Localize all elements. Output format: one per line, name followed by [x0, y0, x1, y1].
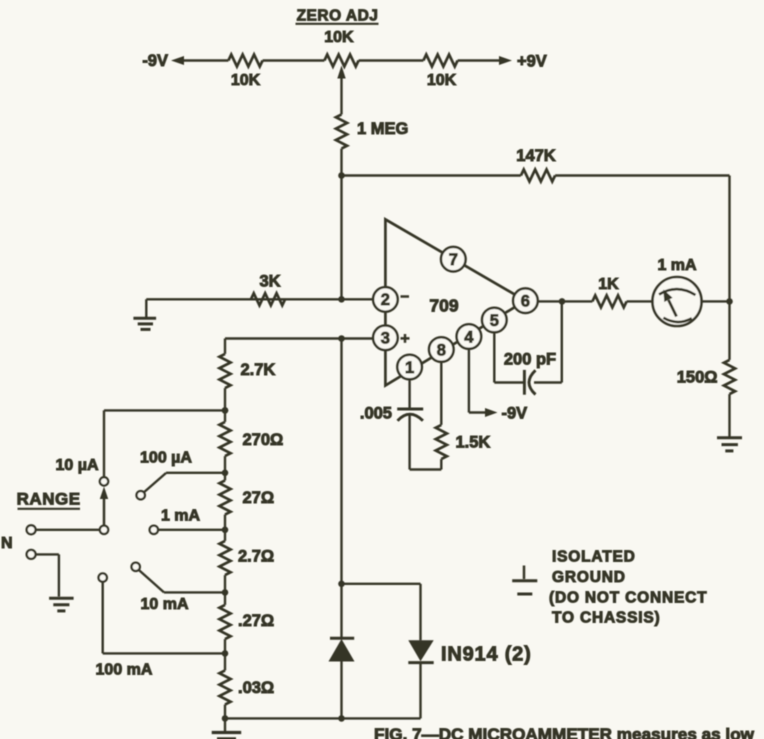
ground [717, 438, 742, 451]
node junction [222, 715, 229, 722]
svg-text:.03Ω: .03Ω [238, 679, 274, 697]
svg-text:10K: 10K [427, 72, 457, 89]
wire to diodes [340, 339, 342, 584]
wire [627, 300, 653, 302]
svg-text:100 µA: 100 µA [140, 450, 192, 467]
svg-text:1 MEG: 1 MEG [357, 120, 408, 138]
pin 1 [397, 355, 422, 380]
resistor 1 MEG [336, 114, 408, 148]
node junction [222, 470, 229, 477]
op-amp U1 709 triangle [385, 219, 525, 385]
capacitor 200 pF [504, 351, 556, 395]
wire ladder [224, 339, 226, 719]
meter M1 1 mA [653, 257, 702, 326]
wire [458, 59, 501, 61]
node junction [338, 335, 345, 342]
svg-text:10K: 10K [231, 72, 261, 89]
pin 7 [441, 247, 466, 272]
svg-text:2.7Ω: 2.7Ω [238, 548, 274, 566]
svg-text:FIG. 7—DC MICROAMMETER measure: FIG. 7—DC MICROAMMETER measures as low [374, 725, 755, 739]
node junction [559, 298, 566, 305]
label 10mA [140, 596, 188, 613]
resistor 1K [592, 276, 626, 307]
wire [342, 584, 421, 641]
wire [144, 473, 225, 493]
note isolated ground [549, 549, 707, 627]
resistor 150 ohm [677, 360, 735, 394]
resistor 2.7 ohm [219, 541, 274, 575]
node junction [222, 589, 229, 596]
diode D1 [329, 638, 355, 718]
node junction [338, 715, 345, 722]
node junction [222, 650, 229, 657]
wire [359, 59, 424, 61]
svg-text:150Ω: 150Ω [677, 369, 718, 387]
contact 100uA [137, 491, 145, 499]
wire [36, 529, 100, 531]
contact 10mA [132, 563, 140, 571]
wire [36, 554, 59, 596]
wire [182, 59, 228, 61]
svg-text:270Ω: 270Ω [243, 431, 284, 449]
wire feedback [342, 176, 730, 302]
svg-text:100 mA: 100 mA [96, 662, 153, 679]
terminal IN+ [27, 525, 36, 534]
pin 8 [429, 337, 454, 362]
ground [133, 299, 156, 329]
svg-text:3: 3 [381, 330, 390, 348]
wire [139, 570, 225, 593]
svg-text:N: N [1, 535, 13, 552]
node junction [726, 298, 733, 305]
svg-text:1.5K: 1.5K [456, 434, 491, 452]
wire bottom [225, 717, 421, 719]
resistor 2.7K [219, 354, 275, 388]
power -9V pin4 [485, 405, 527, 423]
power -9V [142, 52, 184, 70]
node junction [338, 296, 345, 303]
power +9V [499, 53, 547, 71]
svg-text:TO CHASSIS): TO CHASSIS) [552, 610, 660, 627]
resistor 3K [251, 273, 285, 306]
contact 100mA [99, 573, 107, 581]
svg-text:2.7K: 2.7K [241, 361, 276, 379]
wire [728, 394, 730, 436]
resistor 10K right [423, 55, 457, 90]
op-amp label 709 [429, 296, 458, 316]
svg-text:ISOLATED: ISOLATED [552, 549, 636, 566]
pin 5 [482, 308, 507, 333]
svg-text:1K: 1K [598, 276, 619, 293]
resistor 27 ohm [219, 480, 274, 514]
wire output [538, 300, 593, 302]
svg-text:+9V: +9V [517, 53, 547, 71]
svg-text:147K: 147K [516, 147, 556, 165]
label IN914 [441, 644, 532, 666]
wire [702, 300, 730, 302]
label RANGE [17, 490, 81, 509]
svg-text:-9V: -9V [142, 52, 168, 70]
node junction [222, 407, 229, 414]
terminal IN- [27, 550, 36, 559]
diode D2 [408, 640, 433, 718]
svg-text:IN914 (2): IN914 (2) [441, 644, 532, 666]
wiper arrow [337, 66, 345, 115]
wire pin5 [494, 332, 523, 382]
svg-text:10 mA: 10 mA [140, 596, 188, 613]
wire pin8 [440, 362, 442, 425]
noninverting sign [401, 334, 410, 343]
node junction [222, 407, 229, 414]
wire [103, 582, 225, 654]
wire [410, 415, 442, 470]
ground [212, 718, 242, 738]
resistor 270 ohm [219, 422, 283, 456]
pin 2 [373, 287, 398, 312]
svg-text:-9V: -9V [502, 405, 528, 423]
resistor 10K left [228, 55, 262, 90]
label ZERO ADJ [296, 8, 379, 25]
svg-text:10K: 10K [324, 29, 354, 46]
label 10uA [55, 457, 98, 474]
isolated ground symbol [512, 566, 537, 595]
wire [728, 301, 730, 360]
resistor 147K [516, 147, 556, 182]
resistor .03 ohm [219, 670, 274, 704]
wire inverting input [146, 298, 373, 300]
node junction [338, 172, 345, 179]
caption FIG 7 [374, 725, 755, 739]
pin 3 [373, 326, 398, 351]
resistor 1.5K [436, 425, 491, 459]
svg-text:709: 709 [429, 296, 458, 316]
svg-text:.005: .005 [360, 405, 392, 423]
wire [263, 59, 325, 61]
pin 6 [513, 288, 538, 313]
capacitor .005 [360, 405, 423, 423]
svg-text:2: 2 [381, 291, 390, 309]
svg-text:ZERO ADJ: ZERO ADJ [297, 8, 379, 25]
contact 10uA [100, 477, 108, 485]
svg-text:4: 4 [464, 328, 474, 346]
label 1mA [161, 508, 201, 525]
svg-text:GROUND: GROUND [552, 569, 626, 586]
wire [340, 584, 342, 639]
inverting sign [401, 295, 410, 298]
label 100uA [140, 450, 192, 467]
label IN [1, 535, 13, 552]
svg-text:3K: 3K [259, 273, 280, 291]
ground [49, 598, 74, 611]
svg-text:.27Ω: .27Ω [238, 612, 274, 630]
svg-text:6: 6 [521, 293, 530, 311]
contact 1mA [150, 526, 158, 534]
wire [534, 301, 562, 382]
wire [158, 529, 225, 531]
svg-text:1 mA: 1 mA [161, 508, 201, 525]
pin 4 [457, 324, 482, 349]
wire pin1 [408, 379, 410, 407]
resistor .27 ohm [219, 605, 274, 639]
svg-text:8: 8 [437, 341, 446, 359]
svg-text:1 mA: 1 mA [657, 257, 697, 274]
label 100mA [96, 662, 153, 679]
rotor arm [100, 487, 108, 528]
node junction [338, 581, 345, 588]
svg-text:5: 5 [490, 312, 499, 330]
svg-text:200 pF: 200 pF [504, 351, 556, 369]
potentiometer 10K zero adj [324, 55, 358, 67]
wire [340, 149, 342, 300]
svg-text:10 µA: 10 µA [55, 457, 98, 474]
wire noninverting input [225, 337, 373, 339]
svg-text:(DO NOT CONNECT: (DO NOT CONNECT [549, 590, 707, 607]
wire pin4 [469, 349, 487, 413]
svg-text:7: 7 [449, 251, 458, 269]
svg-text:RANGE: RANGE [17, 490, 81, 509]
wire 10uA tap [104, 410, 225, 477]
svg-text:27Ω: 27Ω [243, 489, 275, 507]
node junction [222, 527, 229, 534]
svg-text:1: 1 [405, 359, 414, 377]
rotor common [100, 526, 108, 534]
potentiometer value 10K [324, 29, 354, 46]
